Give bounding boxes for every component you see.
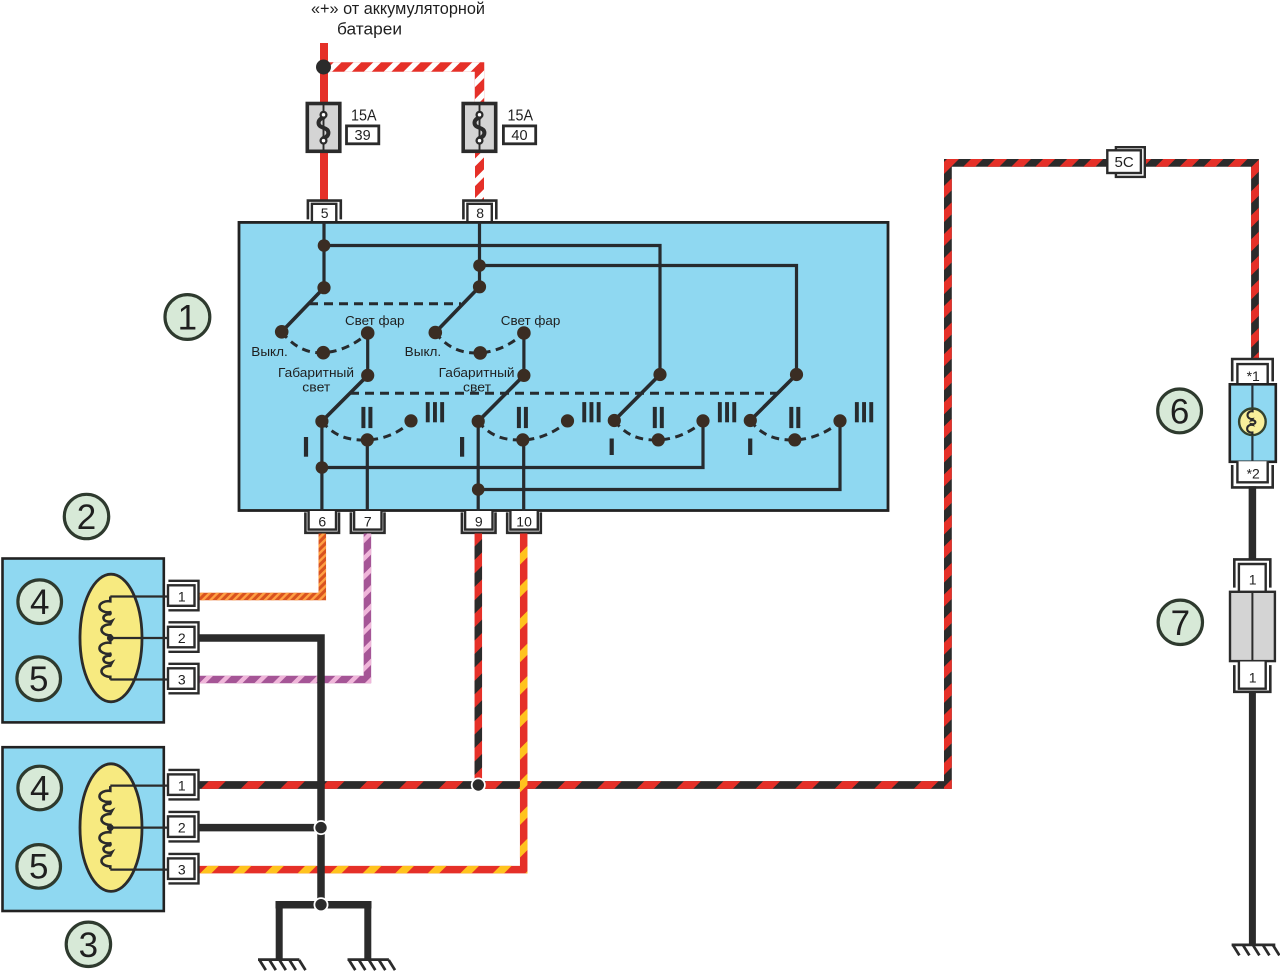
wire pin8 feed vertical [478, 222, 481, 286]
switch A lever [282, 288, 324, 332]
wire svet-far A down link [366, 333, 369, 375]
junction node lower lamp pin2 [314, 821, 327, 834]
switch A dashed travel arc [282, 332, 368, 353]
svg-text:3: 3 [79, 926, 98, 965]
headlight unit upper box [3, 559, 164, 723]
wire bus from pin8 node to switch D [480, 266, 797, 375]
pin 2 lower lamp [168, 812, 199, 842]
switch D lever [750, 375, 796, 421]
svg-text:1: 1 [178, 299, 197, 338]
svg-text:2: 2 [77, 498, 96, 537]
switch A2 lever [322, 375, 368, 421]
wire red/white striped fuse F40 to pin 8 [475, 148, 484, 201]
label circle 7 [1158, 600, 1202, 644]
pin 1 lower lamp [168, 770, 199, 800]
label circle 6 [1158, 389, 1202, 433]
connector *1 of lamp 6 [1232, 359, 1273, 385]
switch A2 dashed arc [322, 421, 411, 440]
svg-text:5С: 5С [1115, 154, 1134, 171]
contact Svet far switch A [361, 326, 375, 340]
junction node pin5 bus [318, 239, 331, 252]
switch B lever [435, 287, 479, 333]
dashed coupling line upper [309, 302, 461, 305]
switch C lever [614, 375, 660, 421]
svg-text:свет: свет [302, 380, 330, 395]
label circle 4 lower [18, 766, 62, 810]
wire pin5 feed vertical [322, 222, 325, 287]
svg-text:6: 6 [1170, 392, 1189, 431]
connector *2 of lamp 6 [1232, 461, 1273, 487]
bulb ellipse upper [80, 574, 142, 702]
label I switch D [748, 439, 752, 456]
switch D dashed arc [750, 421, 840, 440]
svg-text:39: 39 [355, 128, 371, 144]
wire svet-far B down link [522, 333, 525, 375]
contact II switch C [652, 433, 665, 446]
svg-text:*2: *2 [1247, 466, 1260, 482]
lamp filament upper [110, 597, 171, 680]
contact Gabaritny svet switch B [473, 346, 487, 360]
wire pin7 vertical [366, 440, 369, 512]
ground symbol right [1232, 945, 1280, 956]
wire red fuse F39 to pin 5 [320, 148, 328, 201]
contact Vykl switch A [275, 325, 289, 339]
wire black upper lamp pin2 to ground [199, 638, 321, 905]
wire orange/red striped pin6 to upper lamp pin1 [199, 534, 322, 597]
wire black lamp6 to connector 7 [1249, 486, 1257, 560]
svg-text:6: 6 [318, 514, 326, 530]
wire red from battery to fuse F39 [320, 43, 328, 104]
label I switch B2 [460, 437, 464, 457]
svg-text:1: 1 [178, 778, 186, 794]
pin 9 connector [462, 511, 496, 533]
label I switch C [610, 439, 614, 456]
contact III switch D [833, 414, 846, 427]
ground symbol left2 [348, 960, 396, 971]
light switch unit U1 box [239, 222, 888, 510]
svg-text:4: 4 [30, 769, 49, 808]
svg-text:Габаритный: Габаритный [439, 365, 515, 380]
label III switch C [718, 402, 722, 422]
pivot contact switch C [653, 368, 666, 381]
svg-text:батареи: батареи [337, 20, 402, 38]
wire red/yellow striped pin10 to lower lamp pin3 [199, 534, 524, 870]
headlight unit lower box [3, 747, 164, 911]
pivot contact switch B [473, 280, 486, 293]
ground symbol left1 [258, 960, 306, 971]
contact I switch B2 [472, 415, 485, 428]
svg-text:1: 1 [178, 589, 186, 605]
svg-text:5: 5 [29, 660, 48, 699]
svg-text:Габаритный: Габаритный [278, 365, 354, 380]
contact III switch C [696, 414, 709, 427]
link node switch B2 [517, 369, 530, 382]
junction node pin6 bus [316, 461, 329, 474]
switch B2 lever [478, 375, 524, 421]
label II switch A2 [361, 407, 365, 428]
label II switch D [789, 407, 793, 428]
svg-text:свет: свет [463, 380, 491, 395]
svg-text:7: 7 [1171, 604, 1190, 643]
pin 2 upper lamp [168, 622, 199, 652]
svg-text:8: 8 [476, 205, 484, 221]
contact II switch B2 [516, 433, 529, 446]
pin 7 connector [351, 511, 385, 533]
wire pin9 vertical [477, 421, 480, 512]
label I switch A2 [304, 437, 308, 457]
fuse F39 15A [307, 104, 379, 152]
junction node pin9 bus [472, 483, 485, 496]
wire black lower lamp pin2 [199, 824, 321, 832]
label II switch C [653, 407, 657, 428]
svg-text:3: 3 [178, 862, 186, 878]
label circle 4 upper [18, 580, 62, 624]
svg-text:*1: *1 [1247, 368, 1260, 384]
connector 5C label [1107, 147, 1145, 177]
contact Vykl switch B [429, 326, 443, 340]
junction battery node [316, 60, 331, 75]
contact I switch D [744, 414, 757, 427]
label circle 2 [64, 494, 108, 538]
contact I switch A2 [315, 415, 328, 428]
junction node pin9 wire to main wire [472, 778, 485, 791]
junction node ground bus [314, 898, 327, 911]
pin 5 connector [308, 201, 341, 222]
label circle 5 upper [17, 657, 61, 701]
lamp filament lower [110, 786, 171, 870]
connector pair 7 body [1230, 592, 1275, 661]
wire pin6 vertical [320, 421, 323, 512]
wire black connector7 to ground [1249, 692, 1256, 945]
pin 6 connector [305, 511, 339, 533]
svg-text:7: 7 [364, 514, 372, 530]
svg-text:2: 2 [178, 630, 186, 646]
pin 3 upper lamp [168, 664, 199, 694]
pin 10 connector [507, 511, 541, 533]
wire red/black striped pin9 down [475, 534, 483, 786]
pin 3 lower lamp [168, 854, 199, 884]
label circle 3 [66, 922, 110, 966]
label III switch A2 [426, 402, 430, 422]
wire purple/pink striped pin7 to upper lamp pin3 [199, 534, 367, 680]
contact Svet far switch B [517, 326, 531, 340]
wire black/red striped main: lower lamp pin1 to lamp 6 [199, 163, 1255, 785]
svg-text:Свет фар: Свет фар [501, 313, 561, 328]
svg-text:10: 10 [516, 514, 532, 530]
wire pin9 bus to switch D contact III [478, 421, 840, 490]
svg-text:5: 5 [29, 848, 48, 887]
switch C dashed arc [614, 421, 703, 440]
pin 8 connector [463, 201, 496, 222]
label circle 5 lower [17, 845, 61, 889]
contact III switch B2 [561, 414, 574, 427]
fuse F40 15A [463, 104, 536, 152]
svg-text:15А: 15А [351, 108, 377, 125]
pivot contact switch A [317, 281, 330, 294]
svg-text:40: 40 [511, 128, 527, 144]
wire red/white striped from junction to fuse F40 [321, 67, 480, 104]
contact Gabaritny svet switch A [317, 346, 331, 360]
connector pair 7 top pin 1 [1234, 559, 1270, 591]
link node switch A2 [361, 369, 374, 382]
label III switch D [855, 402, 859, 422]
label II switch B2 [517, 407, 521, 428]
svg-text:4: 4 [30, 583, 49, 622]
wire pin10 vertical [522, 440, 525, 512]
svg-text:Выкл.: Выкл. [251, 344, 287, 359]
contact I switch C [608, 414, 621, 427]
contact II switch D [788, 433, 801, 446]
ground bus wire [276, 901, 372, 909]
svg-text:9: 9 [475, 514, 483, 530]
switch B2 dashed arc [478, 421, 567, 440]
svg-text:5: 5 [321, 205, 329, 221]
svg-text:1: 1 [1249, 670, 1257, 686]
svg-text:3: 3 [178, 672, 186, 688]
pivot contact switch D [790, 368, 803, 381]
wire pin6 bus to switch C contact III [322, 421, 703, 468]
label circle 1 [165, 295, 210, 340]
pin 1 upper lamp [168, 581, 199, 611]
wire bus from pin5 node to switch C [324, 246, 660, 375]
svg-text:Выкл.: Выкл. [405, 344, 442, 359]
connector pair 7 bottom pin 1 [1234, 662, 1270, 692]
svg-text:2: 2 [178, 820, 186, 836]
side light lamp 6 [1230, 384, 1276, 462]
svg-text:Свет фар: Свет фар [345, 313, 405, 328]
junction node pin8 bus [473, 259, 486, 272]
contact III switch A2 [404, 414, 417, 427]
dashed coupling line lower [350, 392, 777, 395]
svg-text:15А: 15А [508, 108, 534, 125]
bulb ellipse lower [80, 764, 142, 892]
switch B dashed travel arc [435, 333, 524, 354]
svg-text:1: 1 [1249, 572, 1257, 588]
label III switch B2 [582, 402, 586, 422]
contact II switch A2 [361, 433, 374, 446]
svg-text:«+» от аккумуляторной: «+» от аккумуляторной [311, 0, 485, 18]
